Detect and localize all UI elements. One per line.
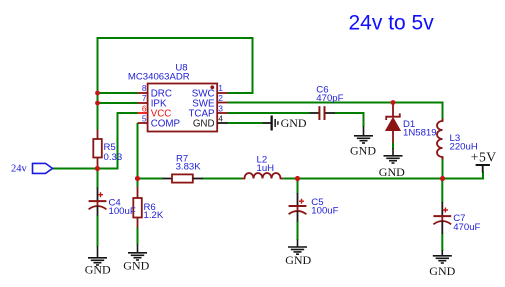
svg-text:0.33: 0.33 [104,152,123,163]
junction dot feedback node [135,176,140,181]
pin 7 lead [138,102,148,104]
svg-text:5: 5 [142,113,147,123]
svg-text:470uF: 470uF [453,222,480,233]
capacitor C7 polarized [441,202,443,216]
wire SWE pin2 to L3 top [227,103,442,122]
pin 2 lead [217,102,227,104]
wire R7 right to L2 left [203,178,243,180]
svg-text:GND: GND [350,143,376,157]
svg-text:GND: GND [85,263,111,277]
svg-text:GND: GND [193,119,215,130]
svg-text:24v: 24v [11,164,28,175]
wire 24v port to R5 bottom junction [53,168,99,170]
pin 5 lead [138,122,148,124]
junction dot D1 node [391,100,396,105]
plus sign C5 [299,199,304,204]
svg-text:2: 2 [218,93,223,103]
svg-text:7: 7 [142,93,147,103]
junction dot C7 node [440,176,445,181]
resistor R5 [97,130,99,140]
junction dot IPK [95,101,100,106]
svg-text:4: 4 [218,113,223,123]
resistor R7 [163,178,173,180]
wire L3 bottom to output rail [442,157,444,180]
svg-text:1uH: 1uH [257,163,275,174]
ground symbol below C7 [433,250,452,263]
wire L2 right along output rail to +5V [283,172,483,179]
svg-text:1.2K: 1.2K [144,210,164,221]
pin 3 lead [217,112,227,114]
diode D1 1N5819 schottky [392,103,394,117]
junction dot C5 node [295,176,300,181]
capacitor C5 polarized [297,193,299,206]
op IC U8 pin1 marker dot [210,85,214,89]
wire C5 bottom to ground [297,221,299,240]
svg-text:COMP: COMP [151,119,181,130]
inductor L3 [437,119,443,160]
svg-text:6: 6 [142,103,147,113]
wire VCC pin6 down to 24v rail [97,113,138,169]
svg-text:470pF: 470pF [316,93,343,104]
pin 1 lead [217,92,227,94]
wire pin7 IPK to left vertical [97,102,138,104]
svg-text:MC34063ADR: MC34063ADR [128,72,190,83]
op IC U8 body [148,84,218,132]
wire top feedback loop from R5 top net to SWC pin1 [98,38,253,130]
inductor L2 [242,173,283,178]
wire feedback junction to R7 left [138,178,164,180]
svg-text:GND: GND [285,253,311,267]
svg-text:100uF: 100uF [311,206,338,217]
port 24v [33,163,53,173]
capacitor C6 [310,112,319,114]
plus sign C4 [98,192,103,197]
wire C7 bottom to ground [441,234,443,251]
wire R6 bottom to ground [137,227,139,245]
wire C7 top from rail [441,179,443,203]
wire GND pin4 stub [227,122,262,124]
svg-text:1N5819: 1N5819 [403,127,437,138]
wire TCAP pin3 to C6 left [227,112,310,114]
svg-text:100uF: 100uF [109,206,136,217]
wire pin8 DRC to left vertical [97,92,138,94]
svg-text:3: 3 [218,103,223,113]
svg-text:+5V: +5V [471,150,497,165]
power port GND bar style at pin4 [263,122,271,124]
wire C4 top from rail [97,169,99,189]
svg-text:24v to 5v: 24v to 5v [349,12,435,35]
junction dot DRC [95,91,100,96]
ground symbol below C4 [88,247,107,266]
plus sign C7 [443,208,448,213]
wire C4 bottom to ground [97,215,99,247]
ground symbol below C5 [288,240,307,255]
svg-text:GND: GND [429,264,455,278]
wire D1 anode to ground [392,143,394,149]
pin 8 lead [138,92,148,94]
svg-text:GND: GND [281,116,307,130]
pin 6 lead [138,112,148,114]
svg-text:GND: GND [379,165,405,179]
svg-text:3.83K: 3.83K [176,162,202,173]
wire C6 right to its ground [335,113,364,127]
capacitor C4 polarized [97,188,99,202]
svg-text:8: 8 [142,83,147,93]
wire C5 top from rail [297,179,299,194]
ground symbol below R6 [128,245,147,261]
power port +5V [476,164,490,166]
wire COMP pin5 down to feedback junction [137,123,139,187]
junction dot 24v rail [95,166,100,171]
svg-text:GND: GND [123,259,149,273]
svg-text:1: 1 [218,83,223,93]
ground symbol below D1 [384,148,403,163]
pin 4 lead [217,122,227,124]
ground symbol below C6 [354,127,373,144]
resistor R6 [137,187,139,199]
